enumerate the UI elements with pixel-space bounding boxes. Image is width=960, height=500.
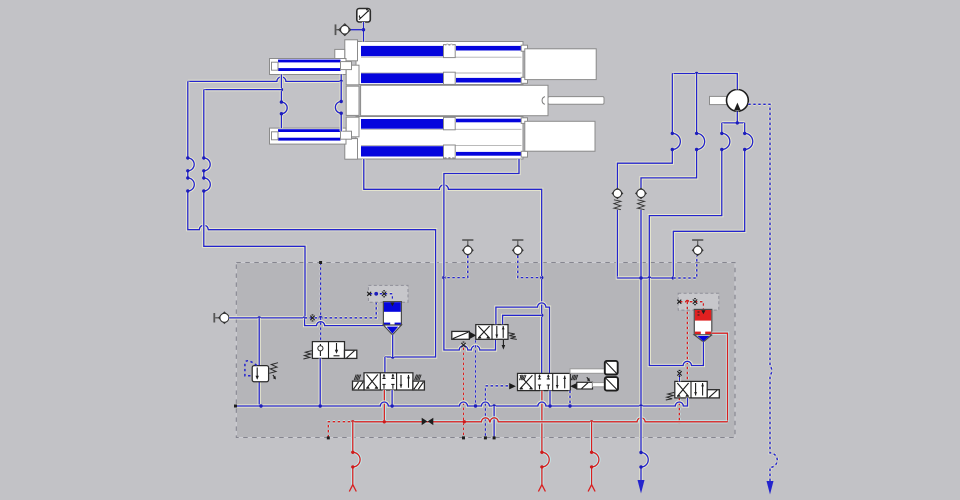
riser R2 with hoses down to manifold (202, 90, 305, 318)
accumulator cartridge A1 label box (367, 285, 408, 302)
wire C1 right port to left riser R1 (188, 75, 343, 84)
wire pump top manifold line (672, 72, 737, 90)
pump P1 (710, 90, 749, 112)
small cylinder C2 (270, 128, 352, 144)
red cartridge A2 (694, 309, 712, 341)
pressure bus (red) (327, 418, 728, 440)
check valve CV2 (636, 188, 646, 209)
stage-2 tube (upper, extended right) (525, 49, 596, 80)
wire V3 P port to pressure bus (383, 390, 386, 422)
wire A2 side port red (712, 333, 728, 422)
wire pump bottom fork (722, 112, 745, 125)
wire inlet to junction (229, 316, 306, 319)
fluid band B4 (lower wall, cap side) (361, 146, 522, 156)
pilot line A2 (red dashed) down through V4 (678, 302, 688, 424)
drain red pilot from V1 to pressure bus and plug (462, 348, 465, 440)
tank drain stub to bottom port (493, 406, 496, 439)
telescopic cylinder: lower wall outline (356, 117, 523, 160)
wire CV1 to manifold (617, 210, 641, 278)
valve V4 (4/2 spring return) (666, 381, 720, 400)
coupler Q4 (blue, tank line) (638, 406, 649, 494)
accumulator cartridge A1 (383, 302, 401, 335)
vent check valve VC3 (692, 240, 703, 255)
riser R1 with hoses down to manifold (186, 81, 436, 358)
pilot line main (dashed) with plug X (305, 294, 377, 321)
coupler Q1 (red) (349, 422, 360, 492)
node pump-net junction in manifold (617, 276, 675, 279)
wire junction to accumulator A1 inlet (305, 318, 384, 326)
vent check valve VC1 (462, 240, 473, 255)
wire V1 A-port to main (503, 315, 542, 324)
wire C1 left port chain to C2 (280, 75, 288, 129)
wire pump line A2 with hose (641, 74, 705, 189)
pilot line VC1 (444, 256, 468, 278)
valve V1 (solenoid 4/2) (452, 325, 517, 340)
tank return bus (blue) (234, 398, 688, 408)
T-port arrow marker below V1 (502, 340, 506, 350)
pilot line V2 left (dashed) (484, 386, 508, 440)
wire V2 P-port red to coupler Q2 (538, 391, 549, 492)
wire C1/C2 right port link (335, 81, 343, 131)
stage-2 piston seals (521, 45, 527, 157)
pilot line vent check VC3 (673, 256, 697, 278)
pilot marker below V1 (461, 342, 465, 348)
wire cylinder cap port to manifold main (364, 159, 544, 373)
small cylinder C1 rod caps (335, 49, 345, 142)
link bar to electrical box E1 (570, 361, 618, 375)
breather check valve CV-top (335, 24, 364, 36)
fluid band B1 (upper wall, cap side) (361, 46, 522, 56)
pressure relief valve PRV1 (245, 318, 278, 406)
pilot line V1 solenoid vent (dashed) (474, 340, 477, 406)
mounting plate column (345, 40, 359, 159)
wire PS1 to cylinder port (362, 22, 365, 42)
valve V3 (4/3 proportional) (353, 373, 425, 390)
pilot line VC2 (518, 256, 542, 278)
manifold enclosure panel (236, 263, 735, 438)
central ram (361, 85, 604, 115)
wire V2 T-port to tank bus (548, 391, 551, 406)
pilot line V2 right (dashed) (569, 391, 572, 406)
telescopic cylinder: upper wall outline (356, 42, 523, 85)
pilot line to valve V5 (dashed) (319, 261, 322, 342)
wire pump line A1 with hose (617, 74, 680, 189)
wire V5 to tank bus (319, 358, 322, 406)
plug marker above V4 (677, 370, 681, 381)
wire pump line B2 with hose (673, 123, 752, 278)
pressure switch PS1 (357, 9, 371, 23)
inlet check valve source S1 (213, 312, 230, 323)
valve V2 (4/3 proportional pilot) (509, 373, 592, 390)
red cartridge A2 label box (677, 293, 719, 310)
stage-2 tube (lower, extended right) (525, 121, 595, 151)
coupler Q3 (red) (588, 422, 599, 492)
wire C1 left port to riser R2 (204, 88, 282, 91)
ball valve BV1 on pressure bus (422, 418, 434, 425)
fluid band B2 (upper wall, inner) (361, 73, 522, 83)
wire V1 B-port to V2 (496, 303, 550, 374)
wire V3 T port to tank bus (391, 390, 394, 406)
fluid band B3 (lower wall, inner) (361, 119, 522, 129)
vent check valve VC2 (512, 240, 523, 255)
case drain line from pump (dashed) (748, 104, 777, 494)
small cylinder C1 (270, 59, 352, 75)
valve V5 (3/2 way) (303, 342, 356, 359)
wire pump line B1 with hose (649, 123, 730, 278)
wire cylinder rod-stage port down (442, 159, 519, 350)
stage-1 piston seals (444, 44, 456, 159)
wire A2 output to pump net (649, 278, 703, 366)
check valve CV1 (612, 188, 622, 209)
wire CV2 down to tank bus and coupler (639, 210, 642, 406)
wire A1 outlet (385, 335, 393, 373)
link bar to electrical box E2 (593, 377, 619, 391)
